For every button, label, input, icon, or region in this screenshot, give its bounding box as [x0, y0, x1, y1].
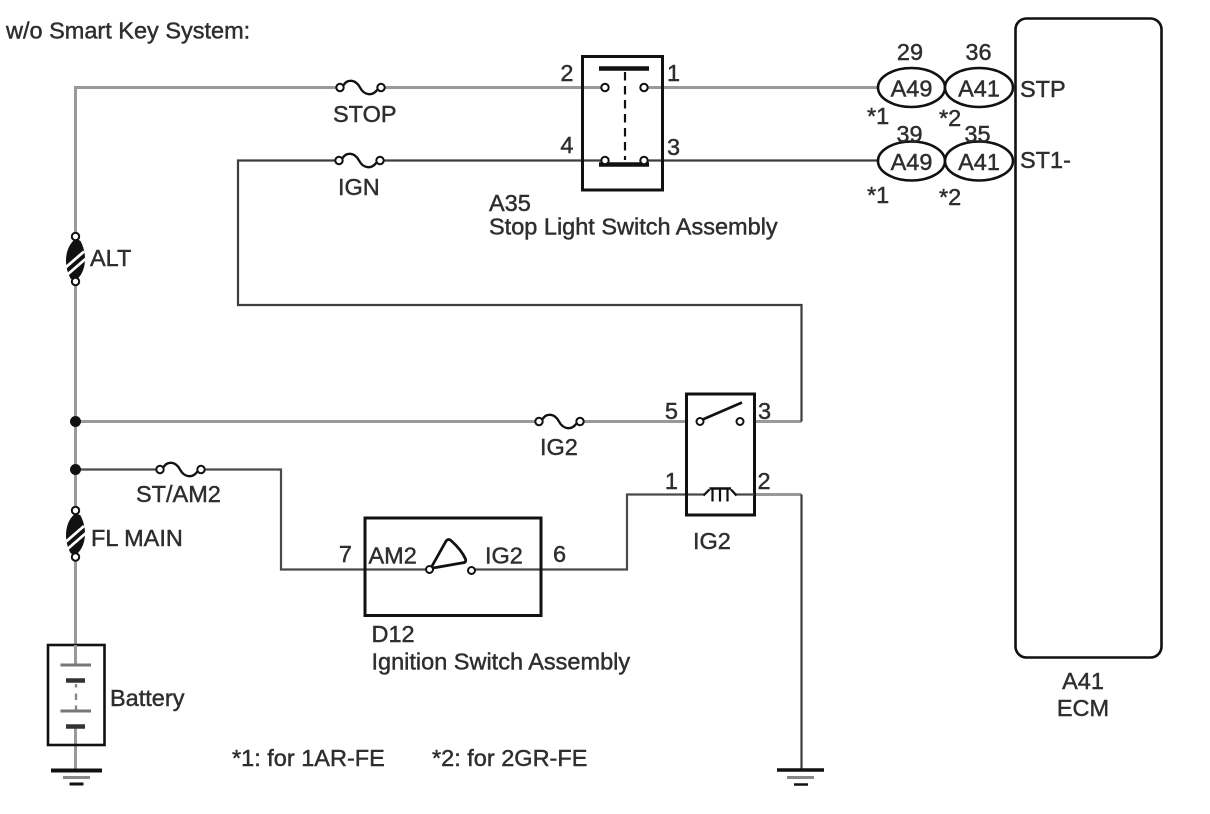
ECM A41 box	[1016, 19, 1162, 722]
battery	[48, 645, 185, 745]
svg-text:36: 36	[965, 39, 991, 65]
fuse STOP	[333, 81, 397, 127]
relay coil	[688, 488, 754, 502]
wire relay pin3 to riser	[754, 420, 802, 423]
connector A41 pin35	[939, 121, 1013, 210]
svg-text:AM2: AM2	[369, 543, 417, 569]
wire ST/AM2 branch	[76, 470, 431, 570]
node junction ST/AM2	[70, 464, 81, 475]
ground battery	[51, 771, 102, 785]
svg-text:ST1-: ST1-	[1020, 147, 1071, 173]
svg-text:Stop Light Switch Assembly: Stop Light Switch Assembly	[489, 214, 778, 240]
svg-text:D12: D12	[372, 621, 415, 647]
connector A41 pin36	[939, 39, 1013, 131]
svg-text:IG2: IG2	[485, 543, 523, 569]
node junction IG2	[70, 416, 81, 427]
svg-text:*2: for 2GR-FE: *2: for 2GR-FE	[432, 745, 587, 771]
svg-text:4: 4	[560, 132, 573, 158]
svg-text:6: 6	[553, 541, 566, 567]
stop light switch A35 box	[583, 57, 663, 191]
svg-text:2: 2	[758, 468, 771, 494]
fuse IGN	[335, 154, 383, 200]
svg-text:29: 29	[897, 39, 923, 65]
svg-text:3: 3	[667, 134, 680, 160]
ignition switch D12 box	[365, 518, 541, 616]
svg-text:*1: *1	[867, 103, 889, 129]
svg-text:A35: A35	[489, 190, 531, 216]
svg-text:*2: *2	[939, 184, 961, 210]
wire D12 pin6 to relay pin1	[471, 495, 688, 570]
svg-text:ST/AM2: ST/AM2	[136, 481, 221, 507]
svg-text:1: 1	[665, 468, 678, 494]
svg-text:IGN: IGN	[338, 174, 380, 200]
svg-text:*1: *1	[867, 182, 889, 208]
svg-text:Ignition Switch Assembly: Ignition Switch Assembly	[372, 649, 631, 675]
wire IG2 feed	[76, 420, 689, 423]
svg-text:Battery: Battery	[110, 685, 185, 711]
svg-text:5: 5	[665, 398, 678, 424]
svg-text:A41: A41	[1062, 668, 1104, 694]
fuse IG2	[535, 415, 583, 460]
svg-text:*1: for 1AR-FE: *1: for 1AR-FE	[232, 745, 385, 771]
ground relay	[777, 770, 824, 785]
svg-text:39: 39	[896, 121, 922, 147]
svg-text:7: 7	[339, 541, 352, 567]
fuse ST/AM2	[136, 463, 221, 507]
fusible link FL MAIN	[65, 507, 183, 561]
svg-text:ECM: ECM	[1057, 695, 1109, 721]
svg-text:A41: A41	[958, 149, 1000, 175]
wire STOP feed (top horizontal + left vertical bus)	[74, 88, 879, 667]
svg-text:2: 2	[560, 60, 573, 86]
wire switch pin3 to connector	[644, 159, 879, 161]
fusible link ALT	[65, 233, 131, 285]
svg-text:3: 3	[758, 398, 771, 424]
svg-text:STP: STP	[1020, 76, 1066, 102]
svg-text:w/o Smart Key System:: w/o Smart Key System:	[5, 18, 250, 44]
svg-text:STOP: STOP	[333, 101, 397, 127]
svg-text:35: 35	[964, 121, 990, 147]
svg-text:ALT: ALT	[90, 245, 131, 271]
wire ground riser	[800, 495, 802, 770]
svg-text:A41: A41	[958, 76, 1000, 102]
svg-text:*2: *2	[939, 105, 961, 131]
wire battery to ground	[74, 727, 77, 770]
wire IGN path (fuse to relay pin3 riser)	[238, 161, 802, 422]
svg-text:A49: A49	[891, 149, 933, 175]
wire IGN fuse to switch pin4	[381, 159, 605, 161]
wire relay pin2 to ground riser	[754, 493, 802, 496]
svg-text:1: 1	[667, 60, 680, 86]
relay IG2 box	[687, 394, 755, 515]
svg-text:A49: A49	[891, 76, 933, 102]
connector A49 pin29	[867, 39, 945, 129]
connector A49 pin39	[867, 121, 945, 208]
svg-text:IG2: IG2	[693, 528, 731, 554]
svg-text:FL MAIN: FL MAIN	[91, 525, 183, 551]
svg-text:IG2: IG2	[540, 434, 578, 460]
